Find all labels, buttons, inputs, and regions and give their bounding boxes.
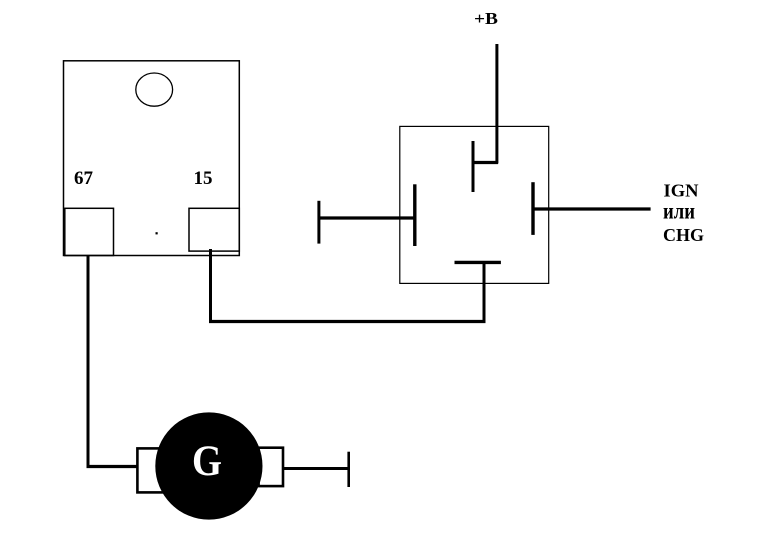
- generator brush terminal left: [137, 448, 163, 492]
- bottom pin contact bar: [455, 261, 501, 264]
- wire to generator: [87, 465, 138, 468]
- svg-text:CHG: CHG: [663, 225, 704, 245]
- wire left pin: [319, 216, 415, 219]
- svg-text:G: G: [192, 438, 222, 485]
- terminal 67: [65, 208, 114, 255]
- wire connector to node: [483, 262, 486, 321]
- left pin contact bar: [413, 184, 416, 246]
- terminal T-bar left: [317, 201, 320, 244]
- regulator box U1: [64, 61, 240, 256]
- center dot: [156, 232, 158, 234]
- wire from terminal 15: [209, 249, 212, 322]
- terminal T-bar output: [347, 452, 350, 487]
- wire horizontal run 15: [209, 320, 486, 323]
- wire +B: [495, 44, 498, 164]
- svg-text:или: или: [663, 198, 695, 224]
- generator G body: [155, 412, 262, 519]
- generator brush terminal right: [259, 448, 283, 486]
- connector box: [400, 126, 549, 283]
- right pin contact bar: [531, 182, 534, 235]
- wire from terminal 67: [87, 256, 90, 469]
- wire generator output: [283, 467, 349, 470]
- svg-text:+B: +B: [474, 9, 498, 28]
- pin B contact bar: [472, 141, 475, 192]
- svg-text:67: 67: [74, 168, 94, 189]
- terminal 15: [189, 208, 239, 251]
- svg-text:15: 15: [194, 168, 213, 189]
- pin B jog wire: [472, 161, 499, 164]
- mounting hole: [136, 73, 173, 106]
- wire IGN: [533, 207, 651, 210]
